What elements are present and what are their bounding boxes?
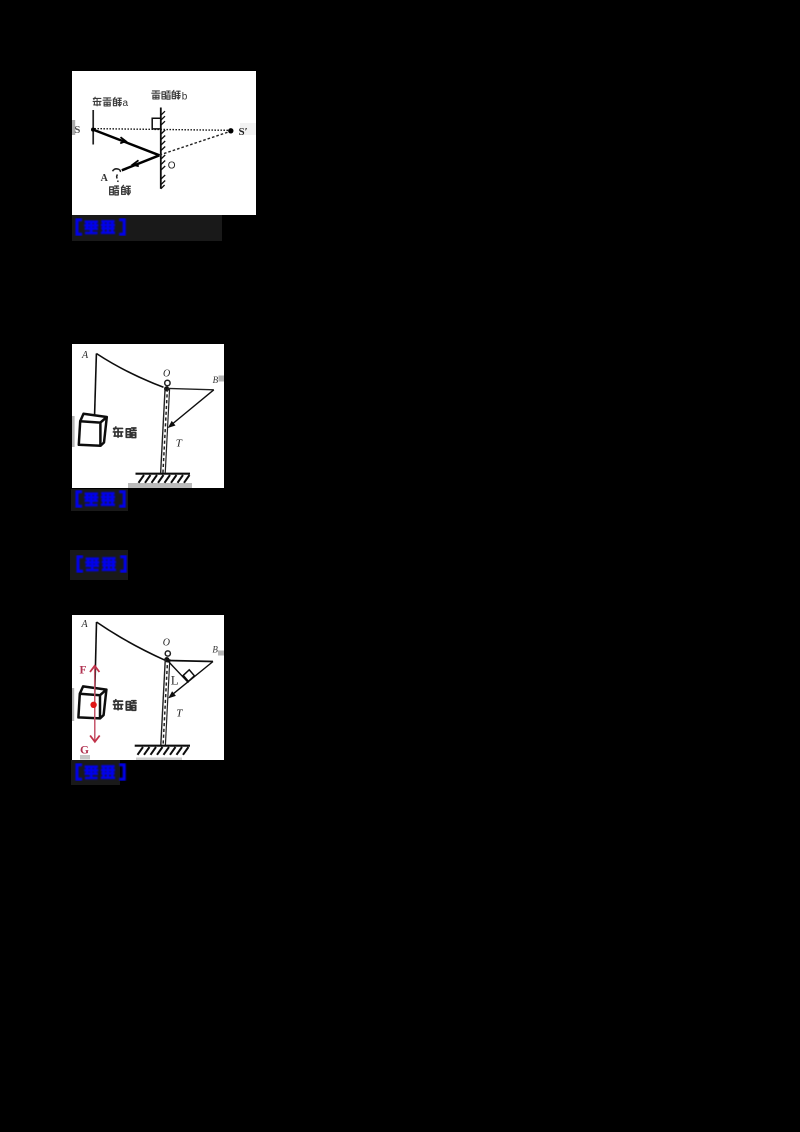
svg-text:S′: S′ — [239, 126, 248, 138]
svg-text:O: O — [163, 638, 170, 649]
svg-text:a: a — [123, 98, 129, 109]
svg-text:T: T — [176, 438, 183, 450]
svg-text:O: O — [163, 369, 170, 380]
svg-text:G: G — [80, 745, 89, 757]
svg-text:B: B — [213, 375, 219, 385]
svg-text:F: F — [80, 665, 87, 677]
svg-text:A: A — [81, 350, 89, 361]
svg-text:B: B — [212, 645, 218, 655]
svg-text:S: S — [74, 124, 80, 136]
svg-text:L: L — [171, 673, 179, 688]
svg-text:O: O — [168, 161, 176, 172]
svg-text:A: A — [81, 619, 89, 630]
svg-text:T: T — [176, 708, 183, 720]
svg-text:A: A — [101, 173, 109, 184]
svg-text:b: b — [182, 92, 188, 103]
